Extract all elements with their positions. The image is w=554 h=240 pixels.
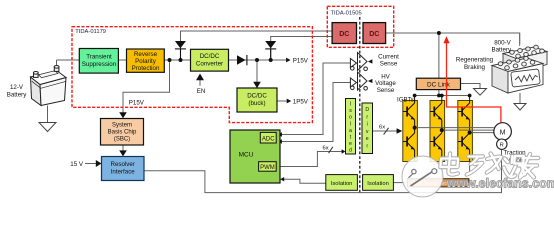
svg-text:Reverse: Reverse [134, 51, 158, 58]
svg-text:DC: DC [339, 31, 349, 38]
svg-text:6x: 6x [379, 125, 385, 131]
svg-text:MCU: MCU [239, 152, 254, 159]
svg-text:r: r [366, 144, 368, 150]
svg-text:Battery: Battery [7, 92, 28, 99]
svg-text:a: a [349, 128, 352, 134]
svg-text:IGBTs: IGBTs [397, 96, 414, 103]
svg-text:Basis Chip: Basis Chip [108, 130, 137, 136]
svg-text:Current: Current [378, 54, 399, 61]
svg-text:Regenerating: Regenerating [456, 57, 494, 64]
svg-text:r: r [366, 114, 368, 120]
svg-text:e: e [349, 141, 352, 147]
svg-text:15 V: 15 V [70, 161, 84, 168]
svg-text:Isolation: Isolation [367, 181, 389, 187]
svg-text:R: R [500, 142, 504, 148]
svg-text:(buck): (buck) [248, 100, 265, 107]
svg-text:i: i [367, 122, 368, 128]
svg-text:P15V: P15V [293, 57, 309, 64]
svg-text:Suppression: Suppression [82, 61, 117, 68]
svg-text:6x: 6x [323, 146, 329, 152]
svg-text:Converter: Converter [196, 60, 223, 67]
svg-text:s: s [349, 108, 352, 114]
svg-text:PWM: PWM [260, 165, 275, 171]
svg-text:800-V: 800-V [494, 39, 511, 46]
svg-text:1P5V: 1P5V [293, 99, 309, 106]
svg-text:System: System [112, 123, 132, 129]
svg-text:d: d [349, 148, 352, 154]
svg-text:ADC: ADC [262, 136, 275, 142]
svg-text:Sense: Sense [380, 61, 398, 68]
svg-text:D: D [365, 107, 369, 113]
svg-text:DC/DC: DC/DC [247, 93, 267, 100]
svg-text:Sense: Sense [377, 87, 395, 94]
svg-text:Braking: Braking [464, 64, 486, 71]
svg-text:Battery: Battery [491, 47, 512, 54]
svg-text:Protection: Protection [132, 65, 160, 72]
svg-text:Resolver: Resolver [110, 161, 134, 168]
svg-text:DC/DC: DC/DC [200, 53, 220, 60]
svg-text:l: l [350, 121, 351, 127]
svg-text:P15V: P15V [129, 100, 145, 107]
svg-text:M: M [500, 129, 506, 136]
svg-text:e: e [366, 136, 369, 142]
svg-text:Polarity: Polarity [135, 58, 157, 65]
svg-text:I: I [350, 102, 351, 108]
svg-text:TIDA-01179: TIDA-01179 [75, 29, 106, 35]
svg-text:www.elecfans.com: www.elecfans.com [446, 177, 554, 191]
svg-text:TIDA-01505: TIDA-01505 [331, 10, 362, 16]
svg-text:EN: EN [197, 88, 206, 95]
svg-text:Transient: Transient [86, 54, 112, 61]
svg-text:Interface: Interface [111, 169, 136, 176]
svg-text:o: o [349, 115, 352, 121]
svg-text:Isolation: Isolation [331, 181, 353, 187]
svg-text:(SBC): (SBC) [114, 137, 130, 143]
svg-text:v: v [366, 129, 369, 135]
svg-text:DC: DC [369, 31, 379, 38]
svg-text:12-V: 12-V [10, 84, 24, 91]
